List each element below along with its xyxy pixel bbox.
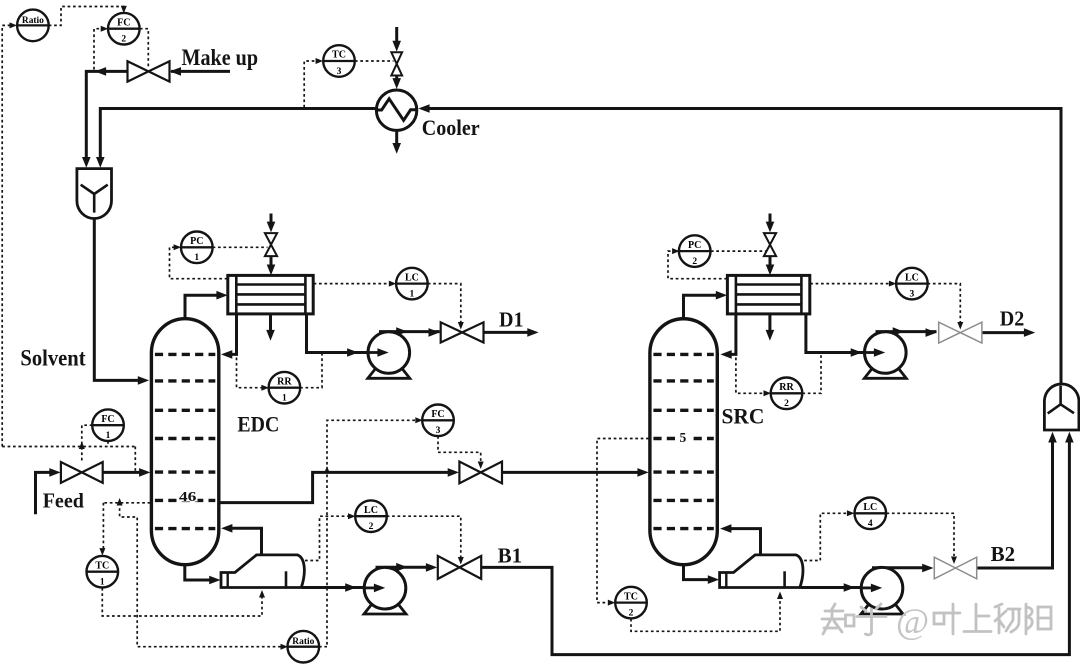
- wm char hu: [857, 604, 886, 635]
- arrow SRC overhead into condenser E2: [716, 291, 727, 300]
- svg-text:B2: B2: [991, 542, 1016, 566]
- mixer M2 inverted Y symbol: [1048, 386, 1074, 414]
- wire: distillate from condenser E2 to pump P3: [806, 314, 877, 353]
- controller Ratio (top left): [17, 10, 49, 42]
- mixer M2: [1044, 384, 1079, 430]
- signal: LC4 to valve B2: [887, 513, 955, 556]
- svg-text:PC: PC: [190, 236, 203, 247]
- arrow distillate line into pump P1 (mid): [347, 348, 358, 357]
- signal: EDC tray46 temperature tap to TC1: [103, 503, 150, 549]
- signal: TC1 to reboiler R1 duty: [102, 588, 262, 616]
- valve: D1 control valve: [441, 322, 484, 342]
- signal arrow into FC3 left: [415, 417, 423, 423]
- reboiler R2 weir: [783, 571, 786, 587]
- signal arrow into B2 valve stem: [951, 557, 957, 565]
- svg-text:1: 1: [106, 431, 111, 441]
- wire: solvent feed from mixer M1 to EDC: [94, 219, 141, 381]
- svg-text:LC: LC: [405, 272, 419, 283]
- svg-text:Make up: Make up: [182, 45, 259, 70]
- arrow reflux into EDC: [221, 350, 232, 359]
- signal: TC2 to reboiler R2 duty: [631, 599, 780, 631]
- SRC trays (dashed): [653, 354, 713, 528]
- svg-text:TC: TC: [95, 560, 109, 571]
- signal arrow into TC3 left: [316, 58, 324, 64]
- signal: ratio setpoint line to FC1 network: [2, 446, 135, 448]
- pump P2: [364, 567, 406, 614]
- signal: Ratio to FC2: [49, 7, 124, 26]
- arrow reboiler R2 bottoms mid: [844, 583, 855, 592]
- svg-text:2: 2: [121, 35, 126, 45]
- svg-text:2: 2: [369, 522, 374, 532]
- signal: FC1 stem: [107, 441, 109, 447]
- svg-text:FC: FC: [431, 409, 444, 420]
- arrow D2 product: [1024, 328, 1035, 337]
- pump P1: [368, 332, 410, 379]
- valve: feed control valve: [61, 462, 103, 483]
- arrow reboiler R1 bottoms mid: [345, 583, 356, 592]
- arrow distillate into pump P1: [377, 348, 388, 357]
- signal arrow into mid valve stem: [478, 462, 484, 470]
- signal: FC2 to make-up valve: [140, 29, 148, 69]
- arrow into valve B2: [922, 564, 933, 573]
- arrow cooler bottom outlet: [392, 143, 401, 154]
- arrow B2 into mixer M2: [1048, 432, 1057, 443]
- signal arrow into LC3 left: [889, 281, 897, 287]
- wire: condenser E1 valve outlet: [270, 256, 273, 267]
- reboiler R1 nozzle wall: [226, 573, 228, 588]
- signal arrow into FC2 left: [101, 26, 109, 32]
- signal: feed flow tap: [134, 447, 136, 472]
- controller LC4: [855, 498, 887, 530]
- signal: PC2 to condenser E2 coolant valve: [711, 250, 767, 252]
- arrow into pump P2: [374, 584, 385, 593]
- svg-text:LC: LC: [364, 505, 378, 516]
- signal: make-up flow tap to FC2: [94, 29, 101, 70]
- cooler circle: [376, 90, 416, 130]
- wire: mid valve to SRC feed: [502, 471, 641, 474]
- cooler zigzag: [377, 99, 417, 121]
- wire: cooler outlet left to mixer M1: [100, 109, 376, 161]
- controller FC3: [422, 405, 454, 437]
- arrow riser vapour into SRC: [720, 524, 731, 533]
- signal arrow into RR2 left: [764, 390, 772, 396]
- svg-text:D1: D1: [499, 308, 524, 332]
- wire: make-up inlet line: [171, 70, 230, 73]
- controller TC2: [615, 587, 647, 619]
- wire: pump P4 discharge to valve B2: [872, 566, 928, 569]
- arrow distillate line into pump P3 (mid): [851, 348, 862, 357]
- wire: feed inlet L: [36, 472, 54, 514]
- signal: RR2 to distillate line tap: [802, 354, 821, 394]
- svg-text:Solvent: Solvent: [20, 346, 86, 371]
- wire: reflux from condenser E2 to SRC: [728, 314, 736, 355]
- valve: B2 control valve (grey): [934, 557, 976, 579]
- signal arrow into B1 valve stem: [458, 557, 464, 565]
- signal: RR1 to distillate line tap: [300, 354, 322, 388]
- svg-text:2: 2: [784, 399, 789, 409]
- wire: reboiler R1 vapour riser to EDC: [228, 528, 261, 554]
- valve: condenser E2 coolant valve (vertical): [764, 233, 776, 256]
- signal: reflux line tap to RR1: [237, 358, 262, 388]
- signal: FC1 to feed valve: [82, 425, 93, 461]
- signal arrow into LC1 left: [389, 281, 397, 287]
- arrow sump liquid into reboiler R1: [209, 576, 220, 585]
- svg-text:EDC: EDC: [237, 412, 279, 437]
- arrow into mid valve: [448, 468, 459, 477]
- pump P4: [861, 567, 903, 614]
- wire: coolant line above condenser E2 valve: [769, 214, 772, 224]
- signal: LC3 to valve D2: [928, 284, 961, 322]
- pump P3: [864, 332, 906, 379]
- label tray number 46: [177, 488, 198, 502]
- signal: FC3 to mid valve: [438, 436, 481, 461]
- svg-text:B1: B1: [498, 544, 522, 568]
- signal arrow into PC2 left: [672, 248, 680, 254]
- signal: reboiler R1 level tap to LC2: [305, 516, 348, 560]
- wire: distillate from condenser E1 to pump P1: [307, 314, 381, 353]
- signal: LC1 to valve D1: [428, 284, 461, 322]
- controller FC1: [92, 409, 124, 441]
- signal: TC3 to cooler valve: [355, 60, 394, 62]
- wire: reflux from condenser E1 to EDC: [228, 314, 236, 355]
- svg-text:3: 3: [436, 426, 441, 436]
- svg-text:TC: TC: [624, 591, 638, 602]
- signal: left edge riser to Ratio controller: [2, 25, 9, 446]
- signal arrow up at bottoms flow tap: [324, 466, 330, 474]
- signal arrow into LC2 left: [348, 513, 356, 519]
- arrow EDC overhead into condenser E1: [216, 291, 227, 300]
- wire: make-up line valve to corner, down to mixer M1: [86, 71, 127, 160]
- wire: coolant inlet above cooler valve: [395, 27, 398, 42]
- reboiler R2 shell: [720, 555, 803, 588]
- arrow B1 into mixer M2: [1065, 432, 1074, 443]
- wire: EDC bottoms to mid valve: [220, 472, 450, 502]
- reboiler R2 nozzle wall: [725, 573, 727, 588]
- wire: condenser E1 bottom vent: [269, 314, 272, 331]
- arrow into make-up valve: [170, 67, 181, 76]
- wire: reboiler R2 bottoms to pump P4: [801, 586, 874, 589]
- signal: condenser E2 pressure tap to PC2: [668, 251, 727, 279]
- wire: reboiler R2 vapour riser to SRC: [727, 529, 760, 555]
- condenser E1: [228, 275, 313, 314]
- condenser E2: [727, 275, 809, 314]
- svg-text:@: @: [896, 601, 929, 641]
- watermark 知乎 @叶上初阳 (grey): [822, 604, 1051, 635]
- arrow distillate into pump P3: [874, 348, 885, 357]
- svg-text:3: 3: [910, 290, 915, 300]
- wire: solvent recycle from mixer M2 up and left to cooler: [427, 109, 1061, 384]
- wire: cooler bottom outlet: [395, 130, 398, 144]
- wire: SRC sump outlet to reboiler R2: [684, 563, 711, 580]
- svg-text:RR: RR: [277, 376, 292, 387]
- arrow cooler valve to cooler: [392, 78, 401, 89]
- wire: pump P1 discharge to valve D1: [379, 330, 440, 333]
- arrow sump liquid into reboiler R2: [708, 575, 719, 584]
- wire: reboiler R1 bottoms to pump P2: [302, 586, 377, 589]
- signal: bottoms flow tap down to Ratio2: [319, 475, 327, 647]
- controller RR2: [771, 378, 803, 410]
- arrow condenser E2 valve to condenser: [766, 265, 775, 276]
- signal arrow into D2 valve stem: [957, 322, 963, 330]
- svg-text:FC: FC: [117, 17, 130, 28]
- mixer M1 Y symbol: [81, 185, 108, 213]
- controller TC1: [87, 556, 119, 588]
- arrow condenser E1 vent down: [266, 330, 275, 341]
- controller FC2: [108, 13, 140, 45]
- wire: condenser E2 bottom vent: [768, 314, 771, 331]
- arrow feed into EDC: [139, 468, 150, 477]
- svg-text:SRC: SRC: [722, 403, 765, 428]
- valve: B1 control valve: [438, 556, 481, 579]
- controller PC1: [181, 232, 213, 264]
- wire: D2 product line: [982, 331, 1027, 334]
- arrow EDC bottoms into SRC: [637, 468, 648, 477]
- controller PC2: [679, 235, 711, 267]
- signal arrow into D1 valve stem: [458, 322, 464, 330]
- svg-text:Feed: Feed: [43, 489, 84, 513]
- svg-text:2: 2: [629, 609, 634, 619]
- controller TC3: [323, 45, 355, 77]
- wire: condenser E2 valve outlet: [769, 256, 772, 267]
- wire: EDC overhead vapour to condenser E1: [185, 295, 220, 321]
- arrow coolant into condenser E1 valve: [267, 222, 276, 233]
- wire: D1 product line: [484, 331, 531, 334]
- arrow recycle into cooler: [418, 104, 429, 113]
- signal arrow up into reboiler R2 duty: [777, 592, 783, 600]
- signal: SRC tray5 temperature tap to TC2: [597, 439, 649, 603]
- signal arrow into FC2 top: [121, 6, 127, 13]
- svg-text:TC: TC: [332, 50, 346, 61]
- arrow into pump P4: [871, 584, 882, 593]
- arrow coolant into cooler valve: [392, 41, 401, 52]
- arrow D1 product: [527, 328, 538, 337]
- svg-text:1: 1: [194, 253, 199, 263]
- arrow condenser E1 valve to condenser: [267, 265, 276, 276]
- signal: condenser E2 level tap to LC3: [810, 283, 889, 285]
- wire: B2 line to mixer M2: [977, 438, 1053, 569]
- controller RR1: [269, 372, 301, 404]
- signal: reboiler R2 level tap to LC4: [804, 513, 847, 560]
- controller Ratio2 (bottom): [288, 631, 320, 663]
- svg-text:2: 2: [692, 257, 697, 267]
- signal arrow up at feed valve stem junction: [79, 442, 85, 450]
- arrow distillate into pump P1 (over circle): [377, 348, 388, 357]
- wm char shang: [964, 604, 991, 632]
- svg-text:PC: PC: [688, 240, 701, 251]
- signal arrow into RR1 left: [261, 385, 269, 391]
- arrow riser vapour into EDC: [221, 524, 232, 533]
- valve: cooler coolant valve (vertical): [391, 52, 402, 75]
- valve: D2 control valve (grey): [939, 322, 982, 343]
- column SRC shell: [650, 319, 717, 565]
- reboiler R1 weir: [285, 571, 288, 587]
- arrow feed into valve: [49, 468, 60, 477]
- svg-text:3: 3: [337, 67, 342, 77]
- svg-text:Cooler: Cooler: [422, 115, 480, 140]
- svg-text:LC: LC: [863, 502, 877, 513]
- wm char yang: [1026, 604, 1032, 634]
- wire: coolant line above condenser E1 valve: [270, 214, 273, 224]
- arrow make-up into mixer M1: [82, 157, 91, 168]
- svg-text:FC: FC: [101, 414, 114, 425]
- wire: pump P3 discharge to valve D2: [876, 330, 937, 333]
- valve: make-up control valve: [128, 61, 170, 81]
- label tray number 5: [677, 429, 690, 443]
- wm char chu: [995, 604, 1020, 633]
- signal arrow up at TC1 branch junction: [117, 498, 123, 506]
- svg-text:Ratio: Ratio: [22, 16, 44, 26]
- signal arrow up into reboiler R1 duty: [259, 590, 265, 598]
- controller LC2: [355, 500, 387, 532]
- arrow into valve D1: [429, 328, 440, 337]
- arrow condenser E2 vent down: [766, 330, 775, 341]
- signal arrow down into TC1 top: [99, 548, 105, 556]
- arrow into valve B1: [426, 563, 437, 572]
- svg-text:5: 5: [680, 430, 687, 445]
- signal: TC1 branch to Ratio2: [120, 503, 281, 647]
- svg-text:46: 46: [179, 489, 197, 504]
- reboiler R1 shell: [221, 555, 304, 588]
- arrow recycle into mixer M1: [96, 157, 105, 168]
- arrow reflux into SRC: [720, 350, 731, 359]
- svg-text:1: 1: [282, 394, 287, 404]
- arrow make-up toward corner: [95, 67, 106, 76]
- wm char zhi: [822, 604, 845, 634]
- signal arrow into PC1 left: [174, 244, 182, 250]
- svg-text:4: 4: [868, 519, 873, 529]
- arrow pump P3 discharge mid: [893, 327, 904, 336]
- signal: PC1 to condenser E1 coolant valve: [213, 246, 268, 248]
- column EDC shell: [151, 319, 218, 565]
- wire: pump P2 discharge to valve B1: [376, 566, 431, 569]
- wire: cooler valve to cooler: [395, 76, 398, 79]
- svg-text:1: 1: [100, 578, 105, 588]
- valve: condenser E1 coolant valve (vertical): [265, 233, 277, 256]
- signal arrow into TC2 left: [608, 600, 616, 606]
- wire: B1 product line to mixer M2: [481, 438, 1069, 655]
- signal: recycle temperature tap to TC3: [304, 61, 316, 108]
- signal: bottoms flow tap to FC3: [327, 420, 415, 470]
- signal arrow into Ratio left: [10, 22, 18, 28]
- svg-text:RR: RR: [779, 382, 794, 393]
- signal: reflux line tap to RR2: [736, 358, 764, 394]
- wm char ye: [934, 613, 944, 624]
- arrow pump P1 discharge mid: [396, 327, 407, 336]
- EDC trays (dashed): [155, 354, 215, 528]
- arrow into valve D2: [926, 328, 937, 337]
- arrow coolant into condenser E2 valve: [766, 222, 775, 233]
- signal arrow into Ratio2 left: [281, 644, 289, 650]
- svg-text:Ratio: Ratio: [292, 637, 314, 647]
- signal: condenser E1 level tap to LC1: [314, 283, 389, 285]
- arrow solvent into EDC: [138, 376, 149, 385]
- signal: LC2 to valve B1: [387, 516, 461, 557]
- signal arrow into LC4 left: [847, 510, 855, 516]
- wire: SRC overhead vapour to condenser E2: [684, 295, 720, 321]
- signal: condenser E1 pressure tap to PC1: [170, 247, 228, 278]
- controller LC3: [896, 268, 928, 300]
- svg-text:LC: LC: [905, 272, 919, 283]
- wire: EDC sump outlet to reboiler R1: [185, 563, 212, 581]
- svg-text:1: 1: [410, 290, 415, 300]
- controller LC1: [396, 268, 428, 300]
- arrow pump P2 discharge mid: [396, 563, 407, 572]
- valve: EDC bottoms (mid) control valve: [459, 462, 502, 484]
- mixer M1: [77, 169, 112, 219]
- wire: feed valve to EDC: [103, 471, 143, 474]
- svg-text:D2: D2: [1000, 307, 1025, 331]
